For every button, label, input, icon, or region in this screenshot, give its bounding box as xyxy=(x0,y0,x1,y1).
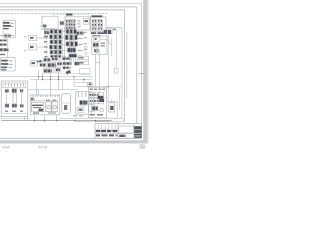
wires M1 to bus xyxy=(39,70,59,80)
cylinder C1 xyxy=(62,94,71,113)
valve V6 in S1 xyxy=(79,100,87,105)
R1 valve xyxy=(93,42,99,47)
B2 lower valve xyxy=(89,105,98,112)
wire right of B2 xyxy=(107,101,118,118)
wire vertical c hook xyxy=(114,30,118,73)
tank inlet valve xyxy=(30,97,60,101)
border frame A xyxy=(0,3,142,138)
control block R1 frame xyxy=(92,36,107,54)
valve V8 below T1 xyxy=(44,31,50,38)
valve block B2 frame xyxy=(88,87,106,118)
wire vertical frame content xyxy=(126,32,128,98)
page edge shadow right xyxy=(143,0,149,143)
B2 spool 1 xyxy=(89,92,93,104)
wire right bus xyxy=(74,86,122,87)
valve V5 left stack xyxy=(0,54,5,55)
valve V1 xyxy=(0,34,14,38)
gauge G1 xyxy=(46,100,51,112)
wire y73 xyxy=(62,72,90,74)
stack link wires xyxy=(62,32,66,57)
dashed leader wire xyxy=(52,14,90,16)
fold tick mark right xyxy=(139,73,145,75)
solenoid pair SP1 xyxy=(104,30,112,34)
tank top ticks xyxy=(33,95,59,97)
pump P1 xyxy=(5,89,9,93)
gauge G2 xyxy=(52,100,57,112)
T2 mid labels xyxy=(78,20,81,27)
box T1 xyxy=(42,16,58,29)
wires R1 down xyxy=(95,54,99,87)
relief valve RV1 xyxy=(83,18,89,24)
T3 cells xyxy=(92,19,102,30)
page background xyxy=(0,0,150,150)
title grid xyxy=(95,124,142,139)
filter F1 bars xyxy=(3,22,11,29)
wire lower bus 3 xyxy=(60,117,123,119)
legend rows xyxy=(1,60,8,71)
B2 top labels xyxy=(90,89,106,90)
subframe S1 xyxy=(76,92,91,114)
legend text xyxy=(9,60,13,68)
wire bus above tank xyxy=(28,89,78,91)
valve V9 right of T1 xyxy=(60,21,64,25)
pump P2 xyxy=(12,88,17,93)
tank bottom labels xyxy=(33,112,56,113)
NP label xyxy=(75,62,80,65)
R1 side marks xyxy=(100,43,105,47)
title row3 text xyxy=(96,134,118,136)
secondary bus xyxy=(76,118,124,121)
cluster M1 xyxy=(40,57,63,73)
border dashed fold line D xyxy=(0,13,108,15)
B2 dark valve xyxy=(98,96,105,102)
wire vertical b xyxy=(111,38,113,56)
oil tank T xyxy=(31,102,43,112)
tank wires to bus xyxy=(35,115,57,121)
corner blob bottom-right xyxy=(139,144,145,149)
valve V7 in S1 xyxy=(77,107,84,112)
wire V8 down xyxy=(45,38,47,58)
caption text mid xyxy=(38,145,48,149)
gauge circles right of K2 xyxy=(84,46,87,54)
wire V1 down xyxy=(7,39,9,58)
title block outer xyxy=(95,124,142,139)
B2 bottom labels xyxy=(90,108,103,115)
T2 cells xyxy=(66,20,75,30)
tiny label marks xyxy=(24,26,43,51)
legend box xyxy=(1,58,16,71)
main return bus xyxy=(2,120,113,122)
title wide cell xyxy=(118,126,133,133)
wire bus mid 2 xyxy=(30,79,92,81)
junction dots mid xyxy=(38,76,85,80)
pilot box PB2 xyxy=(29,44,49,50)
dash left of M1 xyxy=(37,60,44,63)
title code cell 2 xyxy=(134,130,142,133)
title top left line xyxy=(95,120,110,122)
pilot box PB3 xyxy=(31,61,38,67)
R1 lower valve xyxy=(94,49,100,53)
R1 top box xyxy=(94,37,112,45)
stack K1 rails xyxy=(56,29,62,62)
B2 spool 3 xyxy=(99,92,103,104)
manifold box T2 xyxy=(65,17,90,30)
valve V10 below T2 xyxy=(76,31,84,35)
border frame B xyxy=(0,7,137,124)
wire bus mid 1 xyxy=(0,76,92,78)
tank unit box xyxy=(30,95,60,115)
page edge shadow bottom xyxy=(0,140,147,143)
pump bottom labels xyxy=(3,111,26,114)
wire drops to buses xyxy=(59,77,85,90)
valve V4 left stack xyxy=(0,48,9,52)
faint labels left of B2 xyxy=(73,115,83,116)
motor M1 xyxy=(5,103,9,108)
border frame C xyxy=(0,10,125,122)
T1 bottom ticks xyxy=(44,28,55,29)
filter F1 box xyxy=(3,20,16,38)
motor M2 xyxy=(12,103,17,108)
K2 right ports xyxy=(78,33,83,57)
cluster M1 base xyxy=(43,57,62,73)
motor M3 xyxy=(20,104,24,108)
valve V11 right of T3 xyxy=(108,28,116,33)
stack K1 sections xyxy=(50,30,62,59)
filter F1 labels xyxy=(11,23,14,27)
wire from T3 right xyxy=(106,27,122,118)
pilot box PB1 xyxy=(29,35,49,40)
K1 pilot ticks xyxy=(44,31,48,58)
name plate NB1 xyxy=(78,56,89,60)
pump group box xyxy=(1,81,28,117)
stack K2 rails xyxy=(64,29,75,71)
small box on bus xyxy=(88,83,93,87)
wires T3 down xyxy=(95,31,100,36)
title bottom cells xyxy=(119,124,141,138)
T3 bottom text xyxy=(91,32,104,36)
svg-text:497B: 497B xyxy=(38,145,48,149)
title code cell 1 xyxy=(134,126,142,129)
stack K2 sections xyxy=(65,29,77,57)
arrow mark diagonal xyxy=(66,70,71,75)
wires near CV1 xyxy=(112,88,120,110)
subframe S1 arrows xyxy=(78,92,86,97)
cluster M2 xyxy=(63,57,73,69)
pump wires internal xyxy=(7,93,22,104)
label L1 dark xyxy=(66,13,73,15)
svg-text:5AW: 5AW xyxy=(2,145,11,149)
valve V3 left stack xyxy=(0,43,7,45)
caption text left xyxy=(2,145,11,149)
name plate NB2 xyxy=(78,61,89,65)
pump wires to bus xyxy=(1,117,30,121)
pump P3 xyxy=(20,89,24,93)
pump group port row xyxy=(3,83,26,88)
bus junctions xyxy=(34,120,97,122)
K2 port labels xyxy=(84,32,87,51)
check valve CV1 xyxy=(109,103,115,112)
solenoid block T3 xyxy=(91,15,106,31)
valve V2 left stack xyxy=(0,39,7,41)
wire vertical a xyxy=(107,34,109,101)
name plate NB3 xyxy=(80,69,91,75)
wire y82 xyxy=(74,82,92,84)
wires down to tank xyxy=(36,80,50,96)
B2 spool 2 xyxy=(94,92,98,104)
title row2 text xyxy=(96,130,117,132)
